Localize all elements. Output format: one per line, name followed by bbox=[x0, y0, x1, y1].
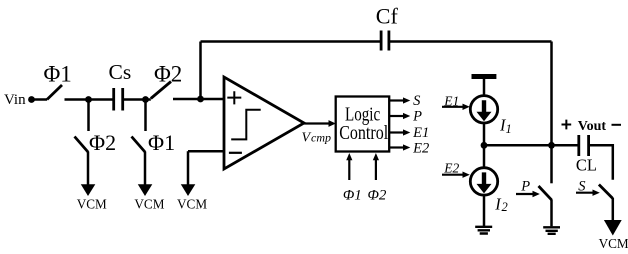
svg-text:E1: E1 bbox=[443, 93, 459, 108]
arrowhead E1 control bbox=[463, 104, 470, 110]
node dot Vin bbox=[28, 96, 35, 103]
wire I2 to ground bbox=[483, 195, 486, 226]
node dot B bbox=[142, 96, 149, 103]
svg-text:Control: Control bbox=[339, 123, 388, 144]
logic control box U2 bbox=[336, 97, 390, 152]
capacitor Cf plates bbox=[381, 31, 389, 51]
wire switch P to ground bbox=[550, 199, 553, 226]
arrowhead S control bbox=[593, 190, 600, 196]
wire minus input down to VCM bbox=[187, 151, 190, 185]
switch blade Phi1 (shunt B) bbox=[132, 137, 146, 153]
switch blade S bbox=[599, 185, 613, 199]
wire output E1 bbox=[389, 131, 404, 133]
svg-text:cmp: cmp bbox=[311, 130, 331, 144]
wire clock Phi1 input bbox=[348, 160, 350, 180]
wire to VCM arrow A bbox=[87, 152, 90, 186]
wire feedback vertical left bbox=[199, 42, 202, 100]
wire switch Phi2 to op-amp + input bbox=[173, 98, 224, 101]
wire output S bbox=[389, 99, 404, 101]
node dot C bbox=[481, 142, 488, 149]
svg-text:Φ1: Φ1 bbox=[343, 188, 362, 204]
wire node A down to switch bbox=[87, 100, 90, 132]
wire to VCM arrow B bbox=[144, 152, 147, 186]
switch blade P bbox=[539, 186, 552, 200]
svg-text:VCM: VCM bbox=[599, 236, 628, 251]
svg-text:VCM: VCM bbox=[134, 197, 164, 212]
capacitor Cs plates bbox=[114, 88, 123, 111]
svg-text:E2: E2 bbox=[412, 141, 429, 157]
current source I1 circle bbox=[470, 96, 497, 123]
wire node B down to switch bbox=[144, 100, 147, 132]
svg-text:Vin: Vin bbox=[4, 92, 26, 108]
svg-text:E2: E2 bbox=[443, 161, 459, 176]
arrowhead VCM A bbox=[81, 184, 96, 196]
label minus output bbox=[612, 124, 622, 126]
arrowhead S out bbox=[403, 97, 410, 103]
node dot A bbox=[85, 96, 92, 103]
svg-text:Φ1: Φ1 bbox=[44, 62, 72, 87]
svg-text:S: S bbox=[413, 93, 421, 109]
wire output E2 bbox=[389, 146, 404, 148]
node dot output bbox=[548, 142, 555, 149]
svg-text:Φ1: Φ1 bbox=[148, 130, 175, 155]
wire CL to corner bbox=[589, 145, 613, 180]
arrowhead P out bbox=[403, 113, 410, 119]
capacitor CL plates bbox=[579, 135, 589, 156]
switch blade Phi2 (shunt A) bbox=[75, 137, 89, 153]
arrowhead clock Phi2 bbox=[373, 153, 379, 160]
svg-text:Φ2: Φ2 bbox=[154, 62, 182, 87]
arrowhead E2 out bbox=[403, 144, 410, 150]
arrowhead P control bbox=[533, 191, 540, 197]
arrowhead E2 control bbox=[463, 172, 470, 178]
wire Cf top left bbox=[201, 40, 382, 43]
svg-text:Vout: Vout bbox=[578, 119, 607, 134]
svg-text:E1: E1 bbox=[412, 125, 429, 141]
wire output node down to switch P bbox=[550, 145, 553, 183]
node dot op-amp input bbox=[197, 96, 204, 103]
wire switch Phi1 to Cs bbox=[65, 98, 114, 101]
supply bar bbox=[472, 74, 497, 79]
wire supply to I1 bbox=[483, 79, 486, 96]
svg-text:Φ2: Φ2 bbox=[89, 130, 116, 155]
arrowhead VCM minus input bbox=[181, 184, 196, 196]
wire S control arrow line bbox=[576, 192, 593, 194]
wire clock Phi2 input bbox=[375, 160, 377, 180]
arrowhead clock Phi1 bbox=[346, 153, 352, 160]
op-amp U1 triangle bbox=[224, 77, 304, 169]
svg-text:CL: CL bbox=[576, 155, 597, 174]
op-amp minus sign bbox=[229, 152, 242, 154]
switch blade Phi2 (series) bbox=[151, 82, 171, 99]
ground P bbox=[543, 227, 560, 234]
wire Vin to switch Phi1 bbox=[32, 98, 48, 101]
wire output node to CL bbox=[552, 144, 579, 147]
svg-text:1: 1 bbox=[506, 122, 512, 136]
wire E1 control arrow line bbox=[442, 106, 463, 108]
wire Cf top right bbox=[389, 40, 551, 43]
arrowhead VCM S bbox=[604, 220, 622, 236]
svg-text:Cf: Cf bbox=[376, 4, 399, 29]
wire output P bbox=[389, 115, 404, 117]
svg-text:P: P bbox=[412, 109, 422, 125]
svg-text:VCM: VCM bbox=[77, 197, 107, 212]
svg-text:Cs: Cs bbox=[109, 60, 132, 84]
wire Vcmp output bbox=[304, 122, 329, 124]
switch blade Phi1 (input) bbox=[47, 85, 62, 100]
svg-text:Φ2: Φ2 bbox=[368, 188, 387, 204]
arrowhead E1 out bbox=[403, 129, 410, 135]
wire node C to output node bbox=[484, 144, 552, 147]
op-amp plus sign bbox=[227, 91, 241, 104]
current arrow I1 bbox=[477, 100, 492, 121]
label plus output bbox=[562, 120, 572, 130]
current source I2 circle bbox=[470, 168, 497, 195]
svg-text:V: V bbox=[302, 130, 312, 145]
ground I2 bbox=[475, 227, 492, 234]
wire Cs to node B bbox=[123, 98, 151, 101]
wire feedback vertical right bbox=[550, 42, 553, 146]
svg-text:P: P bbox=[520, 178, 530, 194]
op-amp hysteresis symbol bbox=[231, 110, 261, 140]
arrowhead Vcmp bbox=[329, 120, 336, 127]
wire op-amp minus input bbox=[188, 150, 224, 153]
svg-text:2: 2 bbox=[502, 200, 508, 214]
current arrow I2 bbox=[477, 172, 492, 193]
wire E2 control arrow line bbox=[442, 174, 463, 176]
arrowhead VCM B bbox=[138, 184, 153, 196]
wire switch S to VCM arrow bbox=[612, 198, 615, 221]
svg-text:S: S bbox=[578, 178, 586, 194]
svg-text:VCM: VCM bbox=[177, 197, 207, 212]
wire P control arrow line bbox=[516, 193, 533, 195]
wire I1 to node C bbox=[483, 123, 486, 168]
